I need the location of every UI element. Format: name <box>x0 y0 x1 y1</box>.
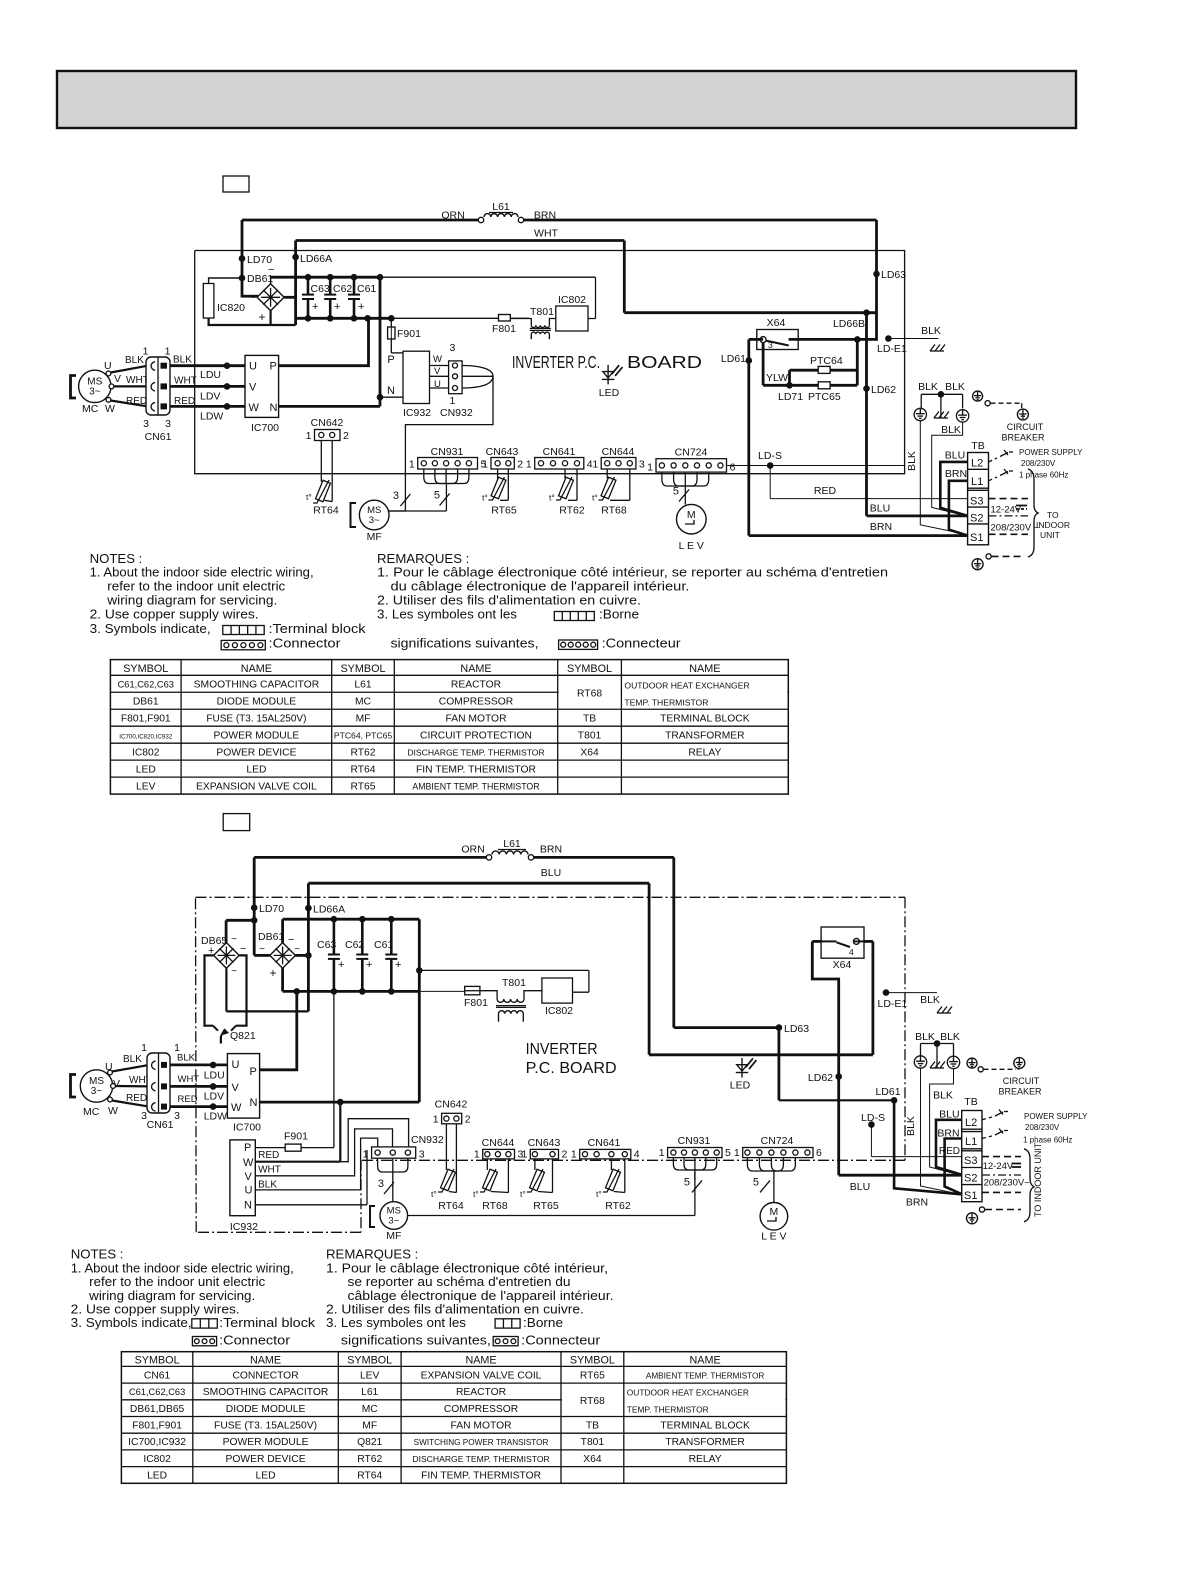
svg-text:C63: C63 <box>317 939 336 951</box>
wire MF to CN931 (bottom) <box>408 1172 695 1216</box>
label 12-24V (top) <box>991 505 1028 516</box>
svg-text:1: 1 <box>306 430 312 442</box>
node LD70 (bottom) <box>251 903 284 915</box>
svg-text:CONNECTOR: CONNECTOR <box>232 1370 298 1381</box>
svg-text:SYMBOL: SYMBOL <box>340 663 385 675</box>
wire CN931 bundle to MF <box>389 469 469 511</box>
circuit breaker earth (top) <box>1017 409 1028 420</box>
svg-text:REACTOR: REACTOR <box>451 680 501 691</box>
wire BLK phase (bottom) <box>170 1062 227 1069</box>
node LD62 (top) <box>863 384 896 396</box>
notes EN line5 (top) <box>90 621 211 636</box>
svg-text:T801: T801 <box>530 306 554 318</box>
svg-text:−: − <box>240 943 246 955</box>
wire ORN vertical LD70 (bottom) <box>254 857 270 955</box>
svg-text:5: 5 <box>753 1176 759 1188</box>
wire BLK left to S1 (top) <box>920 421 966 535</box>
label BRN upper (top) <box>945 468 967 480</box>
wire S1 dashed (top) <box>989 533 1029 535</box>
svg-text:RELAY: RELAY <box>688 747 721 758</box>
label BLK at LD-E1 (top) <box>921 325 941 337</box>
svg-text::Connecteur: :Connecteur <box>521 1333 601 1348</box>
svg-text:CN61: CN61 <box>147 1119 174 1131</box>
terminal block TB (top) <box>968 440 989 545</box>
svg-text:wiring diagram for servicing.: wiring diagram for servicing. <box>106 592 277 607</box>
label BLK horizontal (top) <box>941 424 961 436</box>
label BLK left (bottom) <box>123 1054 142 1065</box>
svg-text:TERMINAL BLOCK: TERMINAL BLOCK <box>660 713 750 724</box>
connector CN61 (bottom) <box>141 1042 180 1131</box>
svg-text:+: + <box>269 966 276 980</box>
svg-text::Connector: :Connector <box>219 1333 291 1348</box>
svg-text:DISCHARGE TEMP. THERMISTOR: DISCHARGE TEMP. THERMISTOR <box>412 1454 549 1464</box>
wire RED phase (bottom) <box>170 1103 227 1110</box>
node LD61 (top) <box>721 353 752 365</box>
svg-text:Q821: Q821 <box>230 1030 256 1042</box>
svg-text:TB: TB <box>964 1096 977 1108</box>
fuse F901 (top) <box>388 318 421 353</box>
svg-text:2. Use copper supply wires.: 2. Use copper supply wires. <box>90 606 259 621</box>
svg-text:BLU: BLU <box>870 503 890 515</box>
svg-text:U: U <box>245 1185 253 1197</box>
wire X64 left to LD61 <box>749 339 763 535</box>
connector CN642 (bottom) <box>433 1099 471 1126</box>
svg-text:C61: C61 <box>357 283 376 295</box>
svg-text:LEV: LEV <box>136 781 156 792</box>
notes FR line6 (bottom) <box>341 1333 491 1348</box>
svg-text:W: W <box>433 354 442 365</box>
label TO INDOOR UNIT (top) <box>1036 510 1070 540</box>
svg-text:CN643: CN643 <box>486 446 519 458</box>
transformer T801 (top) <box>510 306 556 339</box>
svg-text:3: 3 <box>449 342 455 354</box>
svg-text:3: 3 <box>143 418 149 430</box>
svg-text:t°: t° <box>549 493 555 503</box>
svg-text:RED: RED <box>126 396 147 407</box>
svg-text:BRN: BRN <box>945 468 967 480</box>
svg-text:RT64: RT64 <box>313 505 339 517</box>
svg-text::Connecteur: :Connecteur <box>602 635 682 650</box>
svg-text:DB61,DB65: DB61,DB65 <box>130 1404 185 1415</box>
svg-text:LD66B: LD66B <box>833 318 865 330</box>
wire BRN to S1 (top) <box>749 534 968 537</box>
svg-text:W: W <box>231 1102 242 1114</box>
label LDU (top) <box>200 369 221 381</box>
svg-text:1: 1 <box>647 462 653 474</box>
svg-text:UNIT: UNIT <box>1040 530 1060 540</box>
wire TB bottom dashed earth (bottom) <box>979 1207 1021 1212</box>
svg-text:CN644: CN644 <box>482 1137 515 1149</box>
svg-text:IC700,IC820,IC932: IC700,IC820,IC932 <box>119 733 173 740</box>
svg-text:CIRCUIT: CIRCUIT <box>1007 422 1044 432</box>
svg-text:P: P <box>270 361 277 373</box>
svg-text:t°: t° <box>431 1189 437 1199</box>
svg-text:BLK: BLK <box>905 1116 917 1136</box>
svg-text:LD-E1: LD-E1 <box>877 343 907 355</box>
svg-text:MC: MC <box>83 1106 100 1118</box>
power module IC820 <box>203 284 245 319</box>
node LD63 (bottom) <box>776 1023 810 1035</box>
svg-text:BLK: BLK <box>125 355 144 366</box>
wire IC932 N (top) <box>380 396 403 398</box>
label BRN lower (bottom) <box>906 1197 928 1209</box>
svg-text:2: 2 <box>517 459 523 471</box>
wire ORN line (top) <box>242 219 877 222</box>
symbol terminal block EN (bottom) <box>192 1315 316 1330</box>
svg-text:WHT: WHT <box>534 228 558 240</box>
relay X64 (bottom) <box>821 927 864 971</box>
svg-text:SYMBOL: SYMBOL <box>135 1355 180 1367</box>
svg-text:L1: L1 <box>965 1136 977 1148</box>
svg-text:V: V <box>114 373 121 385</box>
capacitor C61 (top) <box>348 277 376 318</box>
svg-text:TRANSFORMER: TRANSFORMER <box>665 1437 745 1448</box>
label BLK right (bottom) <box>177 1053 196 1064</box>
label BLK wire (bottom) <box>258 1180 277 1191</box>
svg-text:F801,F901: F801,F901 <box>132 1421 182 1432</box>
svg-text:NAME: NAME <box>689 1355 720 1367</box>
svg-text:L E V: L E V <box>679 540 704 552</box>
wire BLK ground bus (bottom) <box>921 1040 954 1068</box>
wire motor to CN61 <box>111 366 149 407</box>
label BLK BLK pair (bottom) <box>915 1031 960 1043</box>
notes FR line4 (top) <box>377 606 517 621</box>
svg-text:COMPRESSOR: COMPRESSOR <box>439 696 513 707</box>
compressor motor MC (bottom) <box>71 1061 121 1118</box>
wire RED phase (top) <box>170 403 245 410</box>
reactor L61 (bottom) <box>486 838 533 860</box>
wire LD-S RED to S3 (top) <box>758 450 968 499</box>
notes FR line5 (top) <box>391 635 539 650</box>
svg-text:RED: RED <box>258 1150 279 1161</box>
svg-text:INVERTER P.C.: INVERTER P.C. <box>512 352 600 372</box>
svg-text:+: + <box>358 301 364 313</box>
svg-text:PTC64: PTC64 <box>810 355 843 367</box>
ground circle left (bottom) <box>914 1056 926 1068</box>
svg-text:T801: T801 <box>578 730 602 741</box>
svg-text:CN643: CN643 <box>528 1137 561 1149</box>
wire CN931 bundle (bottom) <box>673 1158 716 1180</box>
svg-text:DB61: DB61 <box>258 931 284 943</box>
svg-text:RT68: RT68 <box>577 688 602 699</box>
wire BLU into S2 (bottom) <box>839 1174 962 1177</box>
svg-text:LD61: LD61 <box>721 353 746 365</box>
wire LD-S RED to S3 (bottom) <box>861 1112 962 1157</box>
svg-text:t°: t° <box>596 1189 602 1199</box>
svg-text:LD66A: LD66A <box>313 904 345 916</box>
svg-text:POWER MODULE: POWER MODULE <box>223 1437 309 1448</box>
notes heading FR (top) <box>377 551 469 566</box>
svg-text:T801: T801 <box>502 977 526 989</box>
wire S3 dashed (bottom) <box>982 1156 1021 1158</box>
wire X64 left to S2 jog (bottom) <box>812 941 873 1175</box>
wire CN932 bundle to fan <box>389 366 493 512</box>
svg-text:BLK: BLK <box>918 381 938 393</box>
connector CN932 (top) <box>440 342 473 419</box>
svg-text:RT62: RT62 <box>559 505 585 517</box>
label WHT left (bottom) <box>129 1075 152 1086</box>
svg-text:C61,C62,C63: C61,C62,C63 <box>129 1387 185 1397</box>
svg-text:N: N <box>270 402 278 414</box>
svg-text:1: 1 <box>526 459 532 471</box>
svg-text:1 phase 60Hz: 1 phase 60Hz <box>1019 471 1068 480</box>
svg-text:RT62: RT62 <box>351 747 376 758</box>
svg-text:X64: X64 <box>833 959 852 971</box>
wire L2 to S2 jog (top) <box>940 462 967 516</box>
notes EN line4 (bottom) <box>71 1301 240 1316</box>
svg-text:+: + <box>366 959 372 971</box>
svg-text:NAME: NAME <box>460 663 491 675</box>
svg-text:POWER SUPPLY: POWER SUPPLY <box>1019 448 1083 457</box>
ground chassis center (bottom) <box>930 1062 945 1069</box>
svg-text:LED: LED <box>246 764 266 775</box>
svg-text::Terminal block: :Terminal block <box>269 621 366 636</box>
wire S2 dashed (bottom) <box>982 1174 1021 1176</box>
svg-text:V: V <box>232 1082 240 1094</box>
label INVERTER P.C. BOARD (top) <box>512 352 702 372</box>
svg-text:S1: S1 <box>970 532 983 544</box>
transistor Q821 (bottom) <box>213 1026 256 1044</box>
label BLK right (top) <box>173 355 192 366</box>
svg-text:CN724: CN724 <box>761 1135 794 1147</box>
svg-text:RT64: RT64 <box>357 1471 382 1482</box>
notes EN line1 (bottom) <box>71 1260 294 1275</box>
connector CN643 (top) <box>482 446 523 471</box>
svg-text:+: + <box>312 301 318 313</box>
notes FR line1 (top) <box>377 565 888 580</box>
wire L1 to S1 jog (bottom) <box>945 1139 962 1194</box>
svg-text:LD62: LD62 <box>808 1072 833 1084</box>
power module IC700 (top) <box>245 355 279 434</box>
node LD66A (bottom) <box>305 904 345 916</box>
svg-text:POWER SUPPLY: POWER SUPPLY <box>1024 1112 1088 1121</box>
svg-text:POWER DEVICE: POWER DEVICE <box>225 1454 305 1465</box>
expansion valve coil LEV (top) <box>677 504 707 552</box>
svg-text:V: V <box>249 382 257 394</box>
wire LD66A vertical (top) <box>284 241 296 326</box>
svg-text:V: V <box>245 1171 253 1183</box>
svg-text:WHT: WHT <box>258 1165 281 1176</box>
compressor motor MC (top) <box>71 360 122 415</box>
ground chassis LD-E1 (top) <box>930 345 945 352</box>
svg-text:X64: X64 <box>767 317 786 329</box>
wire negative right vertical (bottom) <box>416 919 423 1102</box>
fan motor MF (bottom) <box>370 1202 408 1242</box>
svg-text:1 phase 60Hz: 1 phase 60Hz <box>1023 1136 1072 1145</box>
svg-text:refer to the indoor unit elect: refer to the indoor unit electric <box>89 1274 265 1289</box>
ground chassis LD-E1 (bottom) <box>937 1007 952 1014</box>
wire BLK phase (top) <box>170 362 245 369</box>
svg-text:RT65: RT65 <box>580 1370 605 1381</box>
wire CN641 to RT62 (bottom) <box>611 1159 624 1193</box>
connector CN641 (bottom) <box>571 1137 640 1160</box>
svg-text:1: 1 <box>474 1148 480 1160</box>
svg-text:OUTDOOR HEAT EXCHANGER: OUTDOOR HEAT EXCHANGER <box>627 1388 749 1398</box>
svg-text:AMBIENT TEMP. THERMISTOR: AMBIENT TEMP. THERMISTOR <box>412 781 539 791</box>
wire S2 dashed (top) <box>989 515 1029 517</box>
svg-text:C62: C62 <box>345 939 364 951</box>
wire N bus (bottom) <box>260 1099 420 1106</box>
svg-text:S2: S2 <box>964 1173 977 1185</box>
wire X64 right contact (top) <box>789 336 877 343</box>
svg-text:BLK: BLK <box>906 451 918 471</box>
label LDV (bottom) <box>204 1090 224 1102</box>
svg-text:REMARQUES :: REMARQUES : <box>326 1247 418 1262</box>
label WHT right (bottom) <box>178 1074 200 1085</box>
label ORN (top) <box>441 210 464 222</box>
svg-text:SYMBOL: SYMBOL <box>570 1355 615 1367</box>
svg-text:5: 5 <box>434 490 440 502</box>
notes EN line1 (top) <box>90 565 314 580</box>
thermistor RT68 (bottom) <box>473 1169 508 1212</box>
svg-text:U: U <box>434 379 441 390</box>
label BLU lower (bottom) <box>850 1181 870 1193</box>
connector CN61 (top) <box>143 346 172 444</box>
svg-text:PTC64, PTC65: PTC64, PTC65 <box>334 730 392 740</box>
wire CN932 bundle to MF (bottom) <box>378 1158 408 1202</box>
svg-text:+: + <box>338 959 344 971</box>
svg-text:MC: MC <box>355 696 372 707</box>
svg-text:X64: X64 <box>583 1454 602 1465</box>
svg-text:t°: t° <box>592 493 598 503</box>
notes heading EN (bottom) <box>71 1247 124 1262</box>
svg-text:6: 6 <box>730 462 736 474</box>
wire CN644 to RT68 <box>607 469 630 500</box>
symbol borne FR (bottom) <box>495 1315 563 1330</box>
svg-text:1: 1 <box>571 1148 577 1160</box>
relay X64 (top) <box>757 317 798 350</box>
svg-text:F801: F801 <box>464 997 488 1009</box>
fan motor MF (top) <box>351 500 390 543</box>
svg-text:SMOOTHING CAPACITOR: SMOOTHING CAPACITOR <box>203 1387 328 1398</box>
svg-text:IC802: IC802 <box>132 747 160 758</box>
svg-text:1: 1 <box>363 1149 369 1161</box>
svg-text:LDV: LDV <box>200 391 220 403</box>
label BLU (bottom) <box>541 867 561 879</box>
svg-text:t°: t° <box>482 493 488 503</box>
label BLU upper (bottom) <box>939 1109 959 1121</box>
svg-text::Borne: :Borne <box>523 1315 563 1330</box>
label TO INDOOR UNIT (bottom) <box>1033 1142 1043 1217</box>
svg-text:MF: MF <box>386 1230 401 1242</box>
svg-text:LDW: LDW <box>200 411 223 423</box>
svg-text::Terminal block: :Terminal block <box>219 1315 315 1330</box>
empty revision box (bottom diagram) <box>223 814 250 831</box>
wire F901 to positive bus (bottom) <box>333 991 335 1147</box>
svg-text:3. Symbols indicate,: 3. Symbols indicate, <box>90 621 211 636</box>
brace to indoor unit (top) <box>1028 469 1038 557</box>
svg-text:IC820: IC820 <box>217 302 245 314</box>
svg-text:RED: RED <box>178 1094 198 1105</box>
svg-text:LD63: LD63 <box>784 1023 809 1035</box>
svg-text:LED: LED <box>730 1080 751 1092</box>
svg-text:RT68: RT68 <box>580 1396 605 1407</box>
svg-text:MF: MF <box>362 1421 377 1432</box>
svg-text:RED: RED <box>939 1146 960 1157</box>
earth circle TB bottom (top) <box>972 559 983 570</box>
svg-text:TERMINAL BLOCK: TERMINAL BLOCK <box>660 1421 750 1432</box>
svg-text:RT62: RT62 <box>605 1200 631 1212</box>
label LDU (bottom) <box>204 1069 225 1081</box>
svg-text:NAME: NAME <box>250 1355 281 1367</box>
connector CN642 (top) <box>306 417 349 442</box>
label WHT left (top) <box>126 375 149 386</box>
svg-text:N: N <box>250 1097 258 1109</box>
wire DB65 top feed (bottom) <box>226 917 257 943</box>
connector CN644 (top) <box>592 446 645 471</box>
svg-text:BLK: BLK <box>173 355 192 366</box>
svg-text:RELAY: RELAY <box>689 1454 722 1465</box>
svg-text:CIRCUIT: CIRCUIT <box>1003 1076 1040 1086</box>
label CIRCUIT BREAKER (bottom) <box>998 1076 1042 1097</box>
svg-text:t°: t° <box>473 1189 479 1199</box>
node LD71 (top) <box>778 391 803 403</box>
svg-text:1. About the indoor side elect: 1. About the indoor side electric wiring… <box>90 565 314 580</box>
svg-text:significations suivantes,: significations suivantes, <box>341 1333 491 1348</box>
wire marker 5 (bottom fan) <box>684 1176 702 1192</box>
svg-text:t°: t° <box>306 492 312 502</box>
svg-text:EXPANSION VALVE COIL: EXPANSION VALVE COIL <box>421 1370 542 1381</box>
wire BLU vertical to S2 (top) <box>867 313 968 516</box>
svg-text:LED: LED <box>136 764 156 775</box>
svg-text:refer to the indoor unit elect: refer to the indoor unit electric <box>107 578 285 593</box>
ground circle right (top) <box>956 410 968 422</box>
notes heading FR (bottom) <box>326 1247 418 1262</box>
svg-text:N: N <box>387 385 395 397</box>
terminal block TB (bottom) <box>962 1096 982 1202</box>
svg-text:CN61: CN61 <box>144 1370 171 1381</box>
svg-text:BRN: BRN <box>540 844 562 856</box>
node LD62 (bottom) <box>808 1072 842 1084</box>
svg-text:L61: L61 <box>492 201 510 213</box>
svg-text:S2: S2 <box>970 513 983 525</box>
svg-text:~: ~ <box>259 944 265 955</box>
svg-text:BLK: BLK <box>915 1031 935 1043</box>
fuse F801 (bottom) <box>464 986 488 1009</box>
svg-text:S3: S3 <box>964 1155 977 1167</box>
svg-text:3: 3 <box>174 1110 180 1122</box>
svg-text:208/230V~: 208/230V~ <box>984 1178 1031 1189</box>
svg-text:CN931: CN931 <box>678 1135 711 1147</box>
svg-text:MC: MC <box>362 1404 379 1415</box>
svg-text:C63: C63 <box>311 283 330 295</box>
svg-text:DB61: DB61 <box>133 696 159 707</box>
svg-text:t°: t° <box>520 1189 526 1199</box>
svg-text:LD62: LD62 <box>871 384 896 396</box>
ground circle right (bottom) <box>947 1056 959 1068</box>
fuse F801 (top) <box>492 315 529 336</box>
svg-text:PTC65: PTC65 <box>808 391 841 403</box>
svg-text:C62: C62 <box>333 283 352 295</box>
svg-text:LDW: LDW <box>204 1111 227 1123</box>
connector CN643 (bottom) <box>521 1137 567 1160</box>
wire BRN to LD63 (bottom) <box>674 857 779 1027</box>
wire IC932 to CN932 pins <box>430 354 449 390</box>
wire power supply dashed L2 (bottom) <box>982 1110 1011 1120</box>
wire IC932 W stair to CN932 pin3 <box>340 1119 408 1162</box>
svg-text:T801: T801 <box>581 1437 605 1448</box>
symbol connecteur FR (top) <box>559 635 682 650</box>
notes EN line2 (top) <box>107 578 285 593</box>
wire LD63 to LD61 (bottom) <box>779 1028 894 1101</box>
label BLU lower (top) <box>870 503 890 515</box>
wire LD61 to S1 BRN (bottom) <box>894 1100 962 1194</box>
wire marker 5 (top fan) <box>434 490 450 506</box>
svg-text:REACTOR: REACTOR <box>456 1387 506 1398</box>
svg-text:BOARD: BOARD <box>627 352 702 372</box>
node LD63 (top) <box>873 269 906 281</box>
svg-text:S3: S3 <box>970 496 983 508</box>
